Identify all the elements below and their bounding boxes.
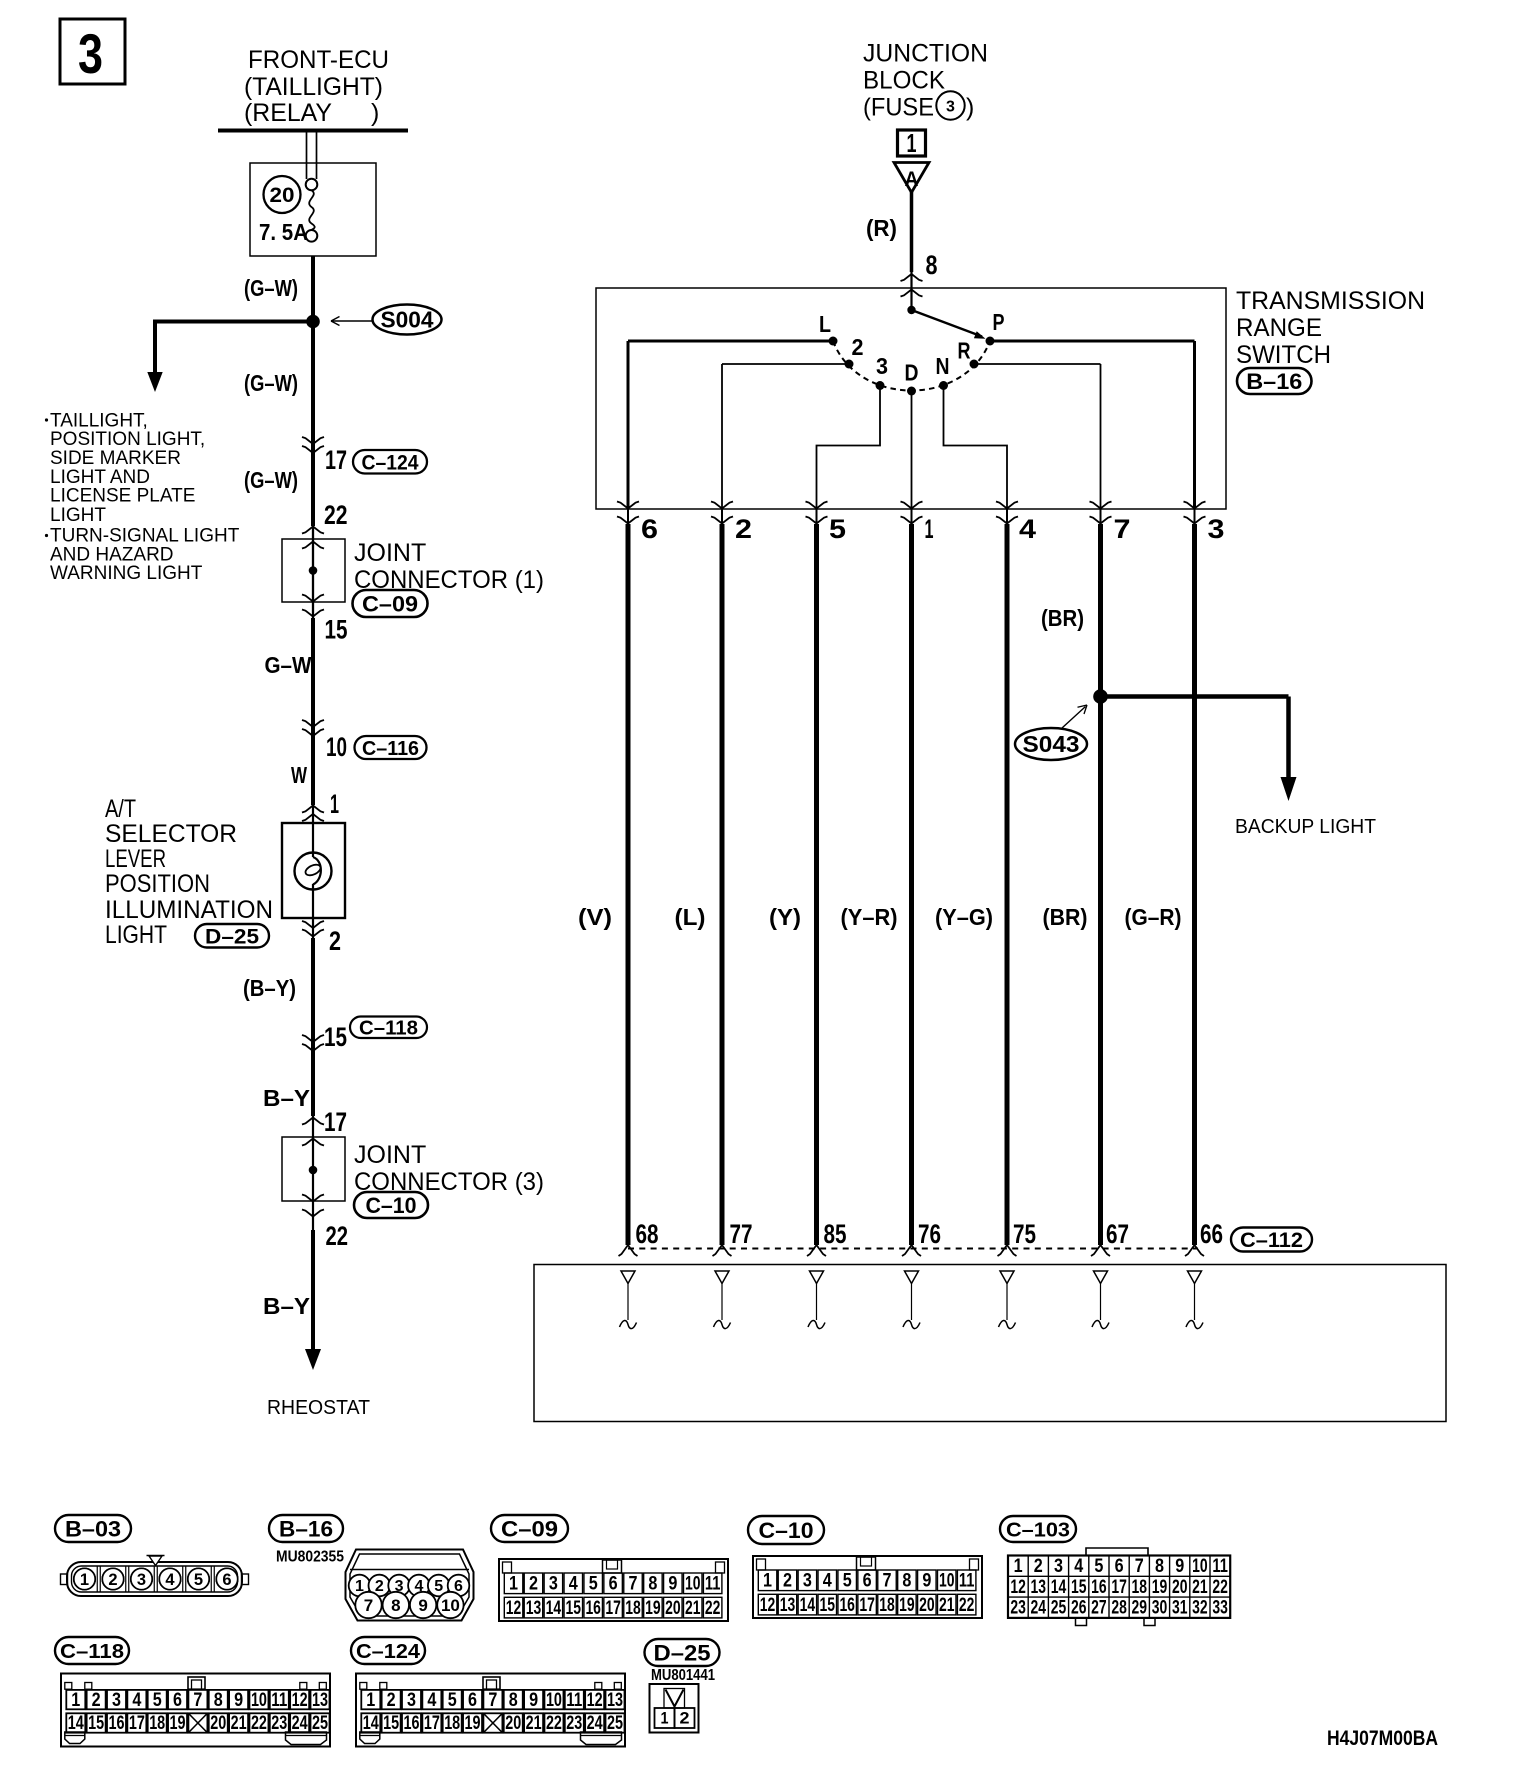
svg-text:(R): (R) — [866, 215, 897, 241]
svg-text:13: 13 — [1031, 1577, 1047, 1598]
svg-text:19: 19 — [899, 1595, 915, 1616]
svg-text:15: 15 — [1071, 1577, 1087, 1598]
svg-text:FRONT-ECU: FRONT-ECU — [248, 46, 389, 74]
svg-text:C–112: C–112 — [1240, 1229, 1303, 1252]
svg-text:3: 3 — [803, 1571, 812, 1592]
svg-text:20: 20 — [270, 184, 295, 207]
svg-text:7: 7 — [193, 1689, 202, 1711]
svg-text:18: 18 — [149, 1712, 165, 1734]
svg-text:(BR): (BR) — [1041, 605, 1084, 631]
svg-text:1: 1 — [763, 1571, 772, 1592]
svg-text:(FUSE: (FUSE — [863, 94, 934, 122]
svg-text:29: 29 — [1132, 1598, 1148, 1619]
svg-text:24: 24 — [587, 1712, 603, 1734]
svg-text:2: 2 — [375, 1578, 384, 1595]
svg-text:C–09: C–09 — [501, 1516, 558, 1541]
svg-text:1: 1 — [661, 1709, 669, 1728]
svg-text:14: 14 — [68, 1712, 84, 1734]
svg-text:(RELAY: (RELAY — [244, 99, 332, 127]
svg-text:(B–Y): (B–Y) — [243, 975, 296, 1001]
svg-text:B–16: B–16 — [1246, 369, 1302, 394]
svg-text:2: 2 — [735, 514, 752, 544]
svg-text:32: 32 — [1192, 1598, 1208, 1619]
svg-text:4: 4 — [132, 1689, 141, 1711]
svg-text:67: 67 — [1106, 1219, 1129, 1249]
svg-text:16: 16 — [839, 1595, 855, 1616]
svg-text:17: 17 — [859, 1595, 875, 1616]
svg-text:C–10: C–10 — [366, 1193, 417, 1218]
svg-text:17: 17 — [424, 1712, 440, 1734]
svg-text:18: 18 — [444, 1712, 460, 1734]
svg-text:17: 17 — [324, 1107, 347, 1137]
svg-text:1: 1 — [925, 514, 934, 544]
svg-text:8: 8 — [214, 1689, 223, 1711]
svg-text:33: 33 — [1212, 1598, 1228, 1619]
svg-text:C–10: C–10 — [759, 1518, 814, 1543]
svg-text:5: 5 — [434, 1578, 443, 1595]
svg-text:25: 25 — [1051, 1598, 1067, 1619]
svg-text:77: 77 — [730, 1219, 753, 1249]
svg-text:9: 9 — [234, 1689, 243, 1711]
svg-text:19: 19 — [645, 1598, 661, 1619]
svg-text:4: 4 — [1019, 514, 1036, 544]
svg-text:22: 22 — [326, 1221, 349, 1251]
svg-text:(G–W): (G–W) — [244, 467, 298, 493]
svg-text:22: 22 — [324, 500, 348, 530]
svg-text:28: 28 — [1111, 1598, 1127, 1619]
svg-text:2: 2 — [387, 1689, 396, 1711]
svg-text:(TAILLIGHT): (TAILLIGHT) — [244, 73, 383, 101]
svg-text:14: 14 — [1051, 1577, 1067, 1598]
svg-text:RANGE: RANGE — [1236, 314, 1322, 342]
svg-text:23: 23 — [566, 1712, 582, 1734]
svg-text:12: 12 — [1010, 1577, 1026, 1598]
svg-text:13: 13 — [780, 1595, 796, 1616]
svg-text:19: 19 — [465, 1712, 481, 1734]
svg-text:ILLUMINATION: ILLUMINATION — [105, 896, 273, 924]
svg-text:19: 19 — [1152, 1577, 1168, 1598]
svg-text:LIGHT: LIGHT — [105, 921, 167, 949]
svg-text:5: 5 — [589, 1574, 598, 1595]
svg-text:D–25: D–25 — [654, 1640, 711, 1665]
svg-text:BACKUP LIGHT: BACKUP LIGHT — [1235, 815, 1376, 838]
svg-text:2: 2 — [1034, 1556, 1043, 1577]
svg-text:20: 20 — [919, 1595, 935, 1616]
svg-text:MU802355: MU802355 — [276, 1549, 344, 1566]
svg-text:3: 3 — [1208, 514, 1225, 544]
svg-text:11: 11 — [271, 1689, 287, 1711]
svg-text:11: 11 — [705, 1574, 721, 1595]
svg-text:7: 7 — [629, 1574, 638, 1595]
svg-text:18: 18 — [879, 1595, 895, 1616]
svg-text:9: 9 — [529, 1689, 538, 1711]
svg-text:7: 7 — [1114, 514, 1131, 544]
svg-text:1: 1 — [71, 1689, 80, 1711]
svg-text:2: 2 — [329, 926, 341, 956]
svg-text:8: 8 — [902, 1571, 911, 1592]
svg-text:15: 15 — [566, 1598, 582, 1619]
svg-text:POSITION: POSITION — [105, 870, 210, 898]
svg-text:L: L — [819, 311, 831, 337]
svg-text:H4J07M00BA: H4J07M00BA — [1327, 1727, 1438, 1750]
svg-text:10: 10 — [546, 1689, 562, 1711]
svg-text:25: 25 — [607, 1712, 623, 1734]
svg-text:2: 2 — [783, 1571, 792, 1592]
svg-text:19: 19 — [170, 1712, 186, 1734]
svg-text:6: 6 — [222, 1571, 231, 1589]
svg-text:18: 18 — [1132, 1577, 1148, 1598]
svg-text:3: 3 — [78, 22, 103, 85]
svg-text:8: 8 — [648, 1574, 657, 1595]
svg-text:7. 5A: 7. 5A — [259, 219, 308, 245]
svg-text:D: D — [905, 360, 919, 386]
svg-text:10: 10 — [251, 1689, 267, 1711]
svg-text:14: 14 — [546, 1598, 562, 1619]
svg-text:SELECTOR: SELECTOR — [105, 820, 237, 848]
svg-text:(L): (L) — [675, 904, 706, 930]
svg-text:24: 24 — [1031, 1598, 1047, 1619]
svg-text:12: 12 — [587, 1689, 603, 1711]
svg-text:RHEOSTAT: RHEOSTAT — [267, 1397, 370, 1419]
svg-text:6: 6 — [173, 1689, 182, 1711]
svg-text:17: 17 — [129, 1712, 145, 1734]
svg-text:1: 1 — [1014, 1556, 1023, 1577]
svg-text:3: 3 — [1054, 1556, 1063, 1577]
svg-text:6: 6 — [863, 1571, 872, 1592]
svg-text:B–16: B–16 — [279, 1516, 333, 1541]
svg-text:BLOCK: BLOCK — [863, 67, 945, 95]
svg-text:68: 68 — [636, 1219, 659, 1249]
svg-text:6: 6 — [609, 1574, 618, 1595]
svg-text:3: 3 — [946, 99, 955, 116]
svg-text:): ) — [966, 94, 974, 122]
svg-text:6: 6 — [468, 1689, 477, 1711]
svg-text:14: 14 — [800, 1595, 816, 1616]
svg-text:9: 9 — [668, 1574, 677, 1595]
svg-text:1: 1 — [907, 128, 917, 158]
svg-text:5: 5 — [1094, 1556, 1103, 1577]
svg-text:14: 14 — [363, 1712, 379, 1734]
svg-text:66: 66 — [1200, 1219, 1223, 1249]
svg-text:17: 17 — [325, 445, 347, 475]
svg-text:21: 21 — [685, 1598, 701, 1619]
svg-text:30: 30 — [1152, 1598, 1168, 1619]
svg-text:27: 27 — [1091, 1598, 1107, 1619]
svg-text:3: 3 — [137, 1571, 146, 1589]
svg-text:15: 15 — [324, 1022, 347, 1052]
svg-text:(BR): (BR) — [1043, 904, 1088, 930]
svg-text:10: 10 — [441, 1596, 460, 1615]
svg-text:(Y): (Y) — [769, 904, 801, 930]
svg-text:SWITCH: SWITCH — [1236, 341, 1331, 369]
svg-text:26: 26 — [1071, 1598, 1087, 1619]
svg-text:12: 12 — [760, 1595, 776, 1616]
svg-text:N: N — [936, 353, 950, 379]
svg-text:2: 2 — [680, 1709, 690, 1728]
svg-text:5: 5 — [829, 514, 846, 544]
svg-text:2: 2 — [529, 1574, 538, 1595]
svg-text:6: 6 — [641, 514, 658, 544]
svg-text:G–W: G–W — [265, 652, 312, 678]
svg-text:LEVER: LEVER — [105, 845, 166, 873]
svg-text:75: 75 — [1013, 1219, 1036, 1249]
svg-text:16: 16 — [585, 1598, 601, 1619]
svg-text:16: 16 — [1091, 1577, 1107, 1598]
svg-text:11: 11 — [959, 1571, 975, 1592]
svg-text:22: 22 — [251, 1712, 267, 1734]
svg-text:(Y–R): (Y–R) — [841, 904, 898, 930]
svg-text:TRANSMISSION: TRANSMISSION — [1236, 287, 1425, 315]
svg-text:31: 31 — [1172, 1598, 1188, 1619]
svg-text:76: 76 — [918, 1219, 941, 1249]
svg-text:1: 1 — [80, 1571, 89, 1589]
svg-text:20: 20 — [1172, 1577, 1188, 1598]
svg-text:C–118: C–118 — [359, 1017, 418, 1039]
svg-text:15: 15 — [383, 1712, 399, 1734]
svg-text:7: 7 — [1135, 1556, 1144, 1577]
svg-text:S043: S043 — [1023, 731, 1080, 757]
svg-text:11: 11 — [1212, 1556, 1228, 1577]
svg-text:13: 13 — [312, 1689, 328, 1711]
svg-text:5: 5 — [843, 1571, 852, 1592]
svg-text:24: 24 — [292, 1712, 308, 1734]
svg-text:16: 16 — [404, 1712, 420, 1734]
svg-text:JOINT: JOINT — [354, 1141, 426, 1169]
svg-text:7: 7 — [488, 1689, 497, 1711]
svg-text:P: P — [993, 309, 1005, 335]
svg-text:25: 25 — [312, 1712, 328, 1734]
svg-text:11: 11 — [566, 1689, 582, 1711]
svg-text:15: 15 — [325, 615, 348, 645]
svg-text:(G–W): (G–W) — [244, 370, 298, 396]
svg-text:(Y–G): (Y–G) — [935, 904, 993, 930]
svg-text:R: R — [958, 338, 971, 364]
svg-text:4: 4 — [569, 1574, 578, 1595]
svg-text:3: 3 — [112, 1689, 121, 1711]
svg-text:10: 10 — [685, 1574, 701, 1595]
svg-text:12: 12 — [506, 1598, 522, 1619]
svg-text:2: 2 — [108, 1571, 117, 1589]
svg-text:8: 8 — [509, 1689, 518, 1711]
svg-text:LICENSE PLATE: LICENSE PLATE — [50, 486, 195, 507]
svg-text:23: 23 — [1010, 1598, 1026, 1619]
svg-text:7: 7 — [364, 1596, 373, 1615]
svg-text:JUNCTION: JUNCTION — [863, 40, 988, 68]
svg-text:B–03: B–03 — [65, 1516, 121, 1541]
svg-text:10: 10 — [1192, 1556, 1208, 1577]
svg-text:21: 21 — [526, 1712, 542, 1734]
svg-text:5: 5 — [194, 1571, 203, 1589]
svg-text:15: 15 — [88, 1712, 104, 1734]
svg-text:2: 2 — [852, 334, 864, 360]
svg-text:12: 12 — [292, 1689, 308, 1711]
svg-text:10: 10 — [939, 1571, 955, 1592]
svg-text:B–Y: B–Y — [263, 1293, 310, 1319]
svg-text:85: 85 — [824, 1219, 847, 1249]
svg-text:8: 8 — [926, 250, 938, 280]
svg-text:C–124: C–124 — [356, 1640, 421, 1663]
svg-text:13: 13 — [607, 1689, 623, 1711]
svg-text:3: 3 — [407, 1689, 416, 1711]
svg-text:22: 22 — [959, 1595, 975, 1616]
svg-text:W: W — [291, 762, 307, 788]
svg-text:13: 13 — [526, 1598, 542, 1619]
svg-text:5: 5 — [153, 1689, 162, 1711]
svg-text:22: 22 — [1212, 1577, 1228, 1598]
svg-text:C–09: C–09 — [362, 591, 418, 616]
svg-text:4: 4 — [823, 1571, 832, 1592]
svg-text:20: 20 — [210, 1712, 226, 1734]
svg-text:C–103: C–103 — [1006, 1518, 1070, 1541]
svg-text:1: 1 — [330, 789, 339, 819]
svg-text:JOINT: JOINT — [354, 539, 426, 567]
svg-text:C–124: C–124 — [362, 451, 419, 474]
svg-text:WARNING LIGHT: WARNING LIGHT — [50, 563, 203, 584]
svg-text:21: 21 — [939, 1595, 955, 1616]
svg-text:C–116: C–116 — [362, 737, 419, 760]
svg-text:8: 8 — [1155, 1556, 1164, 1577]
svg-text:A/T: A/T — [105, 795, 136, 823]
svg-text:7: 7 — [883, 1571, 892, 1592]
svg-text:17: 17 — [605, 1598, 621, 1619]
svg-text:10: 10 — [326, 732, 347, 762]
svg-text:20: 20 — [505, 1712, 521, 1734]
svg-text:3: 3 — [549, 1574, 558, 1595]
svg-text:5: 5 — [448, 1689, 457, 1711]
svg-text:15: 15 — [820, 1595, 836, 1616]
svg-text:S004: S004 — [381, 307, 434, 333]
svg-text:9: 9 — [418, 1596, 427, 1615]
svg-text:17: 17 — [1111, 1577, 1127, 1598]
svg-text:LIGHT: LIGHT — [50, 505, 106, 526]
svg-text:A: A — [905, 168, 919, 191]
svg-text:22: 22 — [546, 1712, 562, 1734]
svg-text:4: 4 — [165, 1571, 175, 1589]
svg-text:4: 4 — [1074, 1556, 1083, 1577]
svg-text:3: 3 — [876, 353, 888, 379]
svg-text:(V): (V) — [578, 904, 612, 930]
svg-text:D–25: D–25 — [205, 925, 259, 948]
svg-text:18: 18 — [625, 1598, 641, 1619]
svg-text:(G–W): (G–W) — [244, 275, 298, 301]
svg-text:C–118: C–118 — [60, 1640, 124, 1663]
svg-text:1: 1 — [366, 1689, 375, 1711]
svg-text:): ) — [371, 99, 379, 127]
svg-text:2: 2 — [92, 1689, 101, 1711]
svg-text:21: 21 — [231, 1712, 247, 1734]
svg-text:1: 1 — [509, 1574, 518, 1595]
svg-text:MU801441: MU801441 — [651, 1667, 715, 1684]
svg-text:9: 9 — [922, 1571, 931, 1592]
svg-text:8: 8 — [391, 1596, 400, 1615]
svg-text:4: 4 — [427, 1689, 436, 1711]
svg-text:6: 6 — [1115, 1556, 1124, 1577]
svg-text:20: 20 — [665, 1598, 681, 1619]
svg-text:21: 21 — [1192, 1577, 1208, 1598]
svg-text:22: 22 — [705, 1598, 721, 1619]
svg-text:9: 9 — [1175, 1556, 1184, 1577]
svg-text:16: 16 — [109, 1712, 125, 1734]
svg-text:23: 23 — [271, 1712, 287, 1734]
svg-text:B–Y: B–Y — [263, 1085, 310, 1111]
svg-text:(G–R): (G–R) — [1125, 904, 1182, 930]
